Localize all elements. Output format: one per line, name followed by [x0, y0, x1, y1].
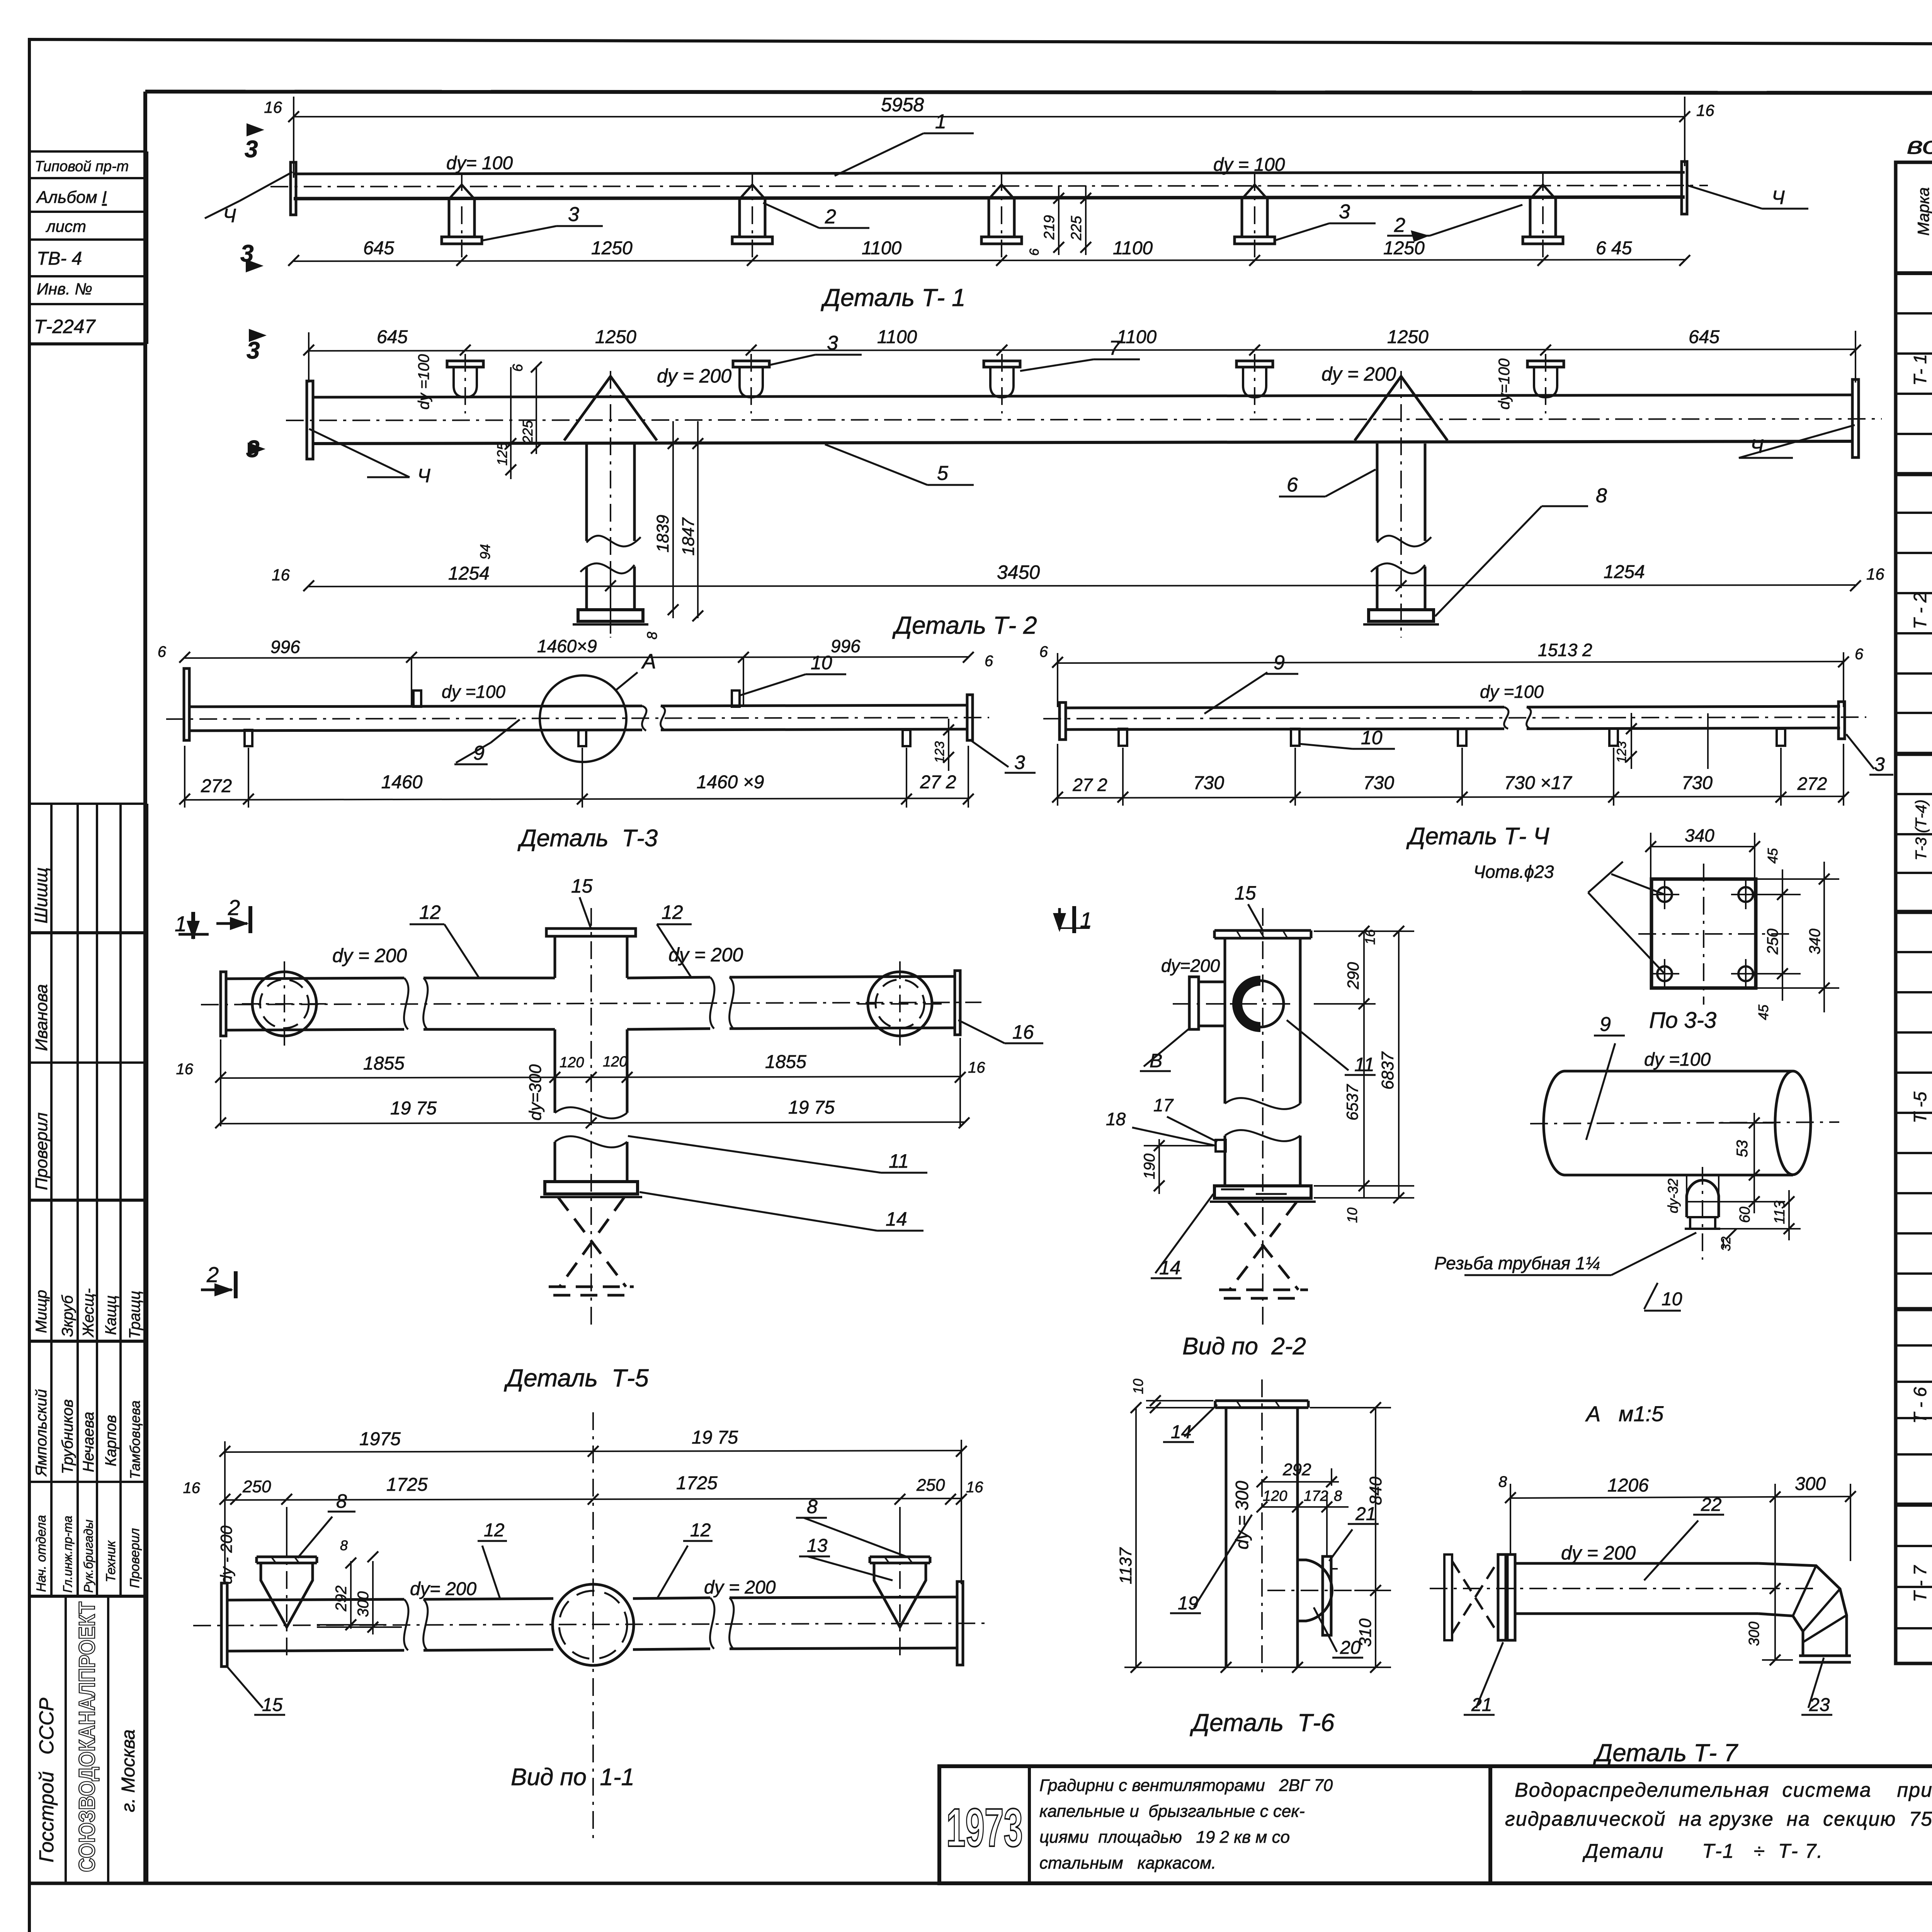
svg-text:272: 272: [1797, 774, 1827, 794]
T-3 dim 123: [943, 719, 954, 771]
svg-text:3: 3: [827, 332, 838, 354]
pipe T-2 dy=200: [286, 379, 1882, 459]
svg-text:14: 14: [886, 1208, 907, 1230]
V22 label 11: [1287, 1020, 1376, 1075]
T-6 label 14: [1163, 1405, 1217, 1442]
T-1 nozzle poz.2 at x=3247: [1235, 173, 1275, 260]
svg-text:1: 1: [1080, 908, 1092, 932]
svg-text:16: 16: [1362, 929, 1378, 945]
flange dim 340 top: [1645, 833, 1760, 900]
svg-text:1460: 1460: [381, 772, 423, 793]
svg-text:190: 190: [1141, 1153, 1158, 1179]
svg-text:Т - 2: Т - 2: [1910, 593, 1930, 629]
pipe V11: [193, 1582, 989, 1667]
svg-text:8: 8: [1498, 1473, 1507, 1490]
svg-text:А: А: [641, 650, 656, 673]
T-7 elbow 90deg poz.23: [1758, 1563, 1851, 1662]
svg-text:120: 120: [603, 1054, 627, 1070]
svg-text:ТВ- 4: ТВ- 4: [37, 248, 82, 269]
inner drawing frame bottom: [29, 1882, 1932, 1885]
svg-text:dy = 200: dy = 200: [704, 1577, 776, 1598]
svg-text:1973: 1973: [946, 1797, 1023, 1858]
svg-text:dy - 200: dy - 200: [217, 1526, 235, 1584]
svg-text:16: 16: [272, 566, 290, 584]
T-4 stubs poz.10: [1119, 729, 1785, 746]
T-5 section mark 1 right: [1053, 906, 1090, 933]
svg-text:292: 292: [333, 1585, 350, 1612]
T-2 small dims 125/225: [505, 362, 542, 479]
T-1 leader 4 right: [1688, 185, 1808, 209]
svg-text:6: 6: [1039, 643, 1048, 660]
T-7 inlet flange poz.21: [1498, 1554, 1515, 1640]
svg-text:730: 730: [1682, 773, 1713, 793]
svg-text:Деталь Т- 7: Деталь Т- 7: [1593, 1739, 1738, 1767]
T-6 dim 1137: [1124, 1402, 1229, 1673]
svg-text:Деталь Т- 2: Деталь Т- 2: [892, 611, 1037, 639]
svg-text:10: 10: [1662, 1289, 1682, 1310]
T-5 labels 12 12: [410, 924, 692, 978]
V11 center circle pipe dy300: [553, 1412, 634, 1839]
svg-text:2: 2: [1394, 214, 1405, 236]
svg-text:Ямпольский: Ямпольский: [33, 1389, 50, 1477]
svg-text:dy = 200: dy = 200: [1561, 1542, 1636, 1564]
svg-text:10: 10: [1130, 1379, 1146, 1394]
svg-text:225: 225: [1068, 216, 1085, 241]
svg-text:dy=100: dy=100: [1496, 359, 1513, 410]
pipe T-7 dy=200: [1430, 1563, 1816, 1614]
svg-text:Ч: Ч: [1750, 435, 1764, 457]
T-5 label 11: [628, 1136, 927, 1173]
svg-text:7: 7: [1109, 337, 1121, 359]
V11 dim chain 16/250/1725: [219, 1494, 967, 1557]
T-2 leader 4 right: [1739, 425, 1855, 458]
svg-text:8: 8: [644, 632, 660, 639]
svg-text:21: 21: [1355, 1504, 1376, 1524]
svg-text:Шишщ: Шишщ: [31, 867, 51, 923]
svg-text:3: 3: [1339, 201, 1350, 223]
T-2 leader 6: [1279, 469, 1376, 497]
svg-text:15: 15: [262, 1695, 283, 1715]
T-3 leader 9: [454, 719, 520, 764]
svg-text:645: 645: [377, 327, 408, 347]
svg-text:120: 120: [1263, 1488, 1287, 1504]
svg-text:12: 12: [690, 1520, 711, 1541]
svg-text:3: 3: [1874, 753, 1885, 775]
P33 big pipe cylinder: [1530, 1071, 1839, 1175]
cone nozzle at 742: [257, 1538, 317, 1658]
svg-text:10: 10: [1344, 1207, 1360, 1223]
V22 labels 17 18 + fitting: [1132, 1117, 1226, 1151]
T-5 vertical pipe dy=300: [540, 908, 642, 1329]
svg-text:стальным каркасом.: стальным каркасом.: [1039, 1854, 1216, 1872]
T-2 top dim chain: [303, 331, 1861, 383]
V22 right dims: [1314, 926, 1414, 1203]
svg-text:6: 6: [510, 364, 526, 372]
T-2 drop dim 1839/1847: [668, 421, 703, 621]
svg-text:8: 8: [1334, 1488, 1342, 1504]
svg-text:лист: лист: [45, 217, 86, 235]
svg-text:Кащц: Кащц: [102, 1295, 119, 1335]
svg-text:Вид по 1-1: Вид по 1-1: [511, 1764, 634, 1791]
svg-text:645: 645: [363, 238, 394, 259]
T-1 nozzle poz.2 at x=1195: [442, 173, 482, 260]
svg-text:Тамбовцева: Тамбовцева: [127, 1400, 143, 1479]
svg-text:1725: 1725: [386, 1475, 428, 1495]
pipe T-1 dy=100: [270, 162, 1708, 215]
svg-text:8: 8: [336, 1490, 347, 1512]
V11 label 15: [226, 1665, 285, 1715]
svg-text:1839: 1839: [653, 515, 672, 553]
V22 label 14: [1151, 1194, 1213, 1278]
T-2 top nozzle poz.3/7 at x=1944: [733, 354, 769, 413]
T-5 dim 1855/120/120: [215, 1038, 966, 1126]
T-6 column pipe dy=300: [1226, 1379, 1298, 1677]
svg-text:27 2: 27 2: [1072, 775, 1107, 795]
T-1 leader 1: [835, 133, 974, 176]
T-6 top flange poz.14: [1215, 1401, 1308, 1408]
svg-text:СОЮЗВОДОКАНАЛПРОЕКТ: СОЮЗВОДОКАНАЛПРОЕКТ: [75, 1602, 100, 1872]
svg-text:Нечаева: Нечаева: [80, 1412, 97, 1472]
T-6 side nozzle poz.20 half circle: [1267, 1560, 1352, 1621]
svg-text:730: 730: [1193, 773, 1224, 793]
svg-text:11: 11: [889, 1150, 909, 1172]
svg-text:Т - 6: Т - 6: [1910, 1387, 1930, 1423]
svg-text:2: 2: [825, 206, 836, 228]
svg-text:Проверил: Проверил: [32, 1112, 51, 1190]
V11 labels 12: [478, 1541, 713, 1600]
svg-text:1100: 1100: [1113, 238, 1153, 259]
svg-text:250: 250: [1764, 929, 1781, 955]
svg-text:19 75: 19 75: [390, 1098, 437, 1119]
T-2 section mark 3 upper: [268, 323, 272, 360]
svg-text:16: 16: [264, 98, 282, 116]
T-2 drop pipe poz.6 at x=3626: [1355, 371, 1447, 638]
svg-text:16: 16: [1866, 565, 1884, 583]
svg-text:22: 22: [1701, 1495, 1721, 1515]
svg-text:dy = 200: dy = 200: [657, 365, 731, 387]
svg-text:dy = 200: dy = 200: [668, 944, 743, 966]
svg-text:14: 14: [1171, 1422, 1191, 1442]
svg-text:dy-32: dy-32: [1665, 1179, 1681, 1213]
svg-text:dy =100: dy =100: [442, 682, 505, 702]
svg-text:1: 1: [175, 912, 187, 936]
svg-text:гидравлической на грузке на: гидравлической на грузке на секцию 750 м…: [1505, 1808, 1932, 1830]
T-3 leader 3 right: [972, 741, 1036, 773]
T-7 dim 300 vert: [1762, 1583, 1793, 1665]
T-2 leader 5: [825, 444, 974, 485]
svg-text:45: 45: [1765, 848, 1781, 864]
svg-text:1: 1: [935, 111, 946, 133]
svg-text:219: 219: [1041, 215, 1058, 240]
flange plate detail 340x340: [1638, 864, 1795, 1005]
svg-text:19 75: 19 75: [788, 1097, 835, 1118]
svg-text:113: 113: [1772, 1201, 1788, 1224]
svg-text:1855: 1855: [765, 1052, 806, 1072]
svg-text:123: 123: [1614, 741, 1629, 763]
table grid: [1896, 162, 1932, 1663]
svg-text:dy=300: dy=300: [526, 1064, 545, 1121]
svg-text:13: 13: [807, 1536, 828, 1556]
svg-text:Детали Т-1 ÷ Т- 7.: Детали Т-1 ÷ Т- 7.: [1582, 1840, 1823, 1862]
T-4 leader 10: [1299, 744, 1395, 749]
svg-text:12: 12: [419, 901, 441, 923]
svg-text:Чотв.ɸ23: Чотв.ɸ23: [1473, 862, 1554, 882]
T-3 stubs poz.10: [245, 690, 910, 746]
V11 label 13: [799, 1556, 893, 1580]
svg-text:1513 2: 1513 2: [1538, 640, 1592, 660]
svg-text:340: 340: [1806, 929, 1823, 954]
svg-text:12: 12: [662, 901, 683, 923]
T-1 section mark 3 lower: [266, 248, 270, 286]
svg-text:16: 16: [183, 1480, 201, 1497]
svg-text:15: 15: [571, 875, 593, 897]
svg-text:730 ×17: 730 ×17: [1504, 773, 1573, 793]
svg-text:Типовой пр-т: Типовой пр-т: [35, 158, 129, 175]
svg-text:996: 996: [270, 637, 300, 657]
svg-text:dy = 200: dy = 200: [332, 945, 407, 966]
V11 labels 8: [298, 1512, 910, 1558]
T-2 leader 3: [769, 355, 862, 365]
T-6 dim 10 top: [1146, 1395, 1213, 1413]
V22 bottom flange poz.14: [1210, 1186, 1316, 1202]
svg-text:290: 290: [1344, 962, 1362, 990]
T-2 leader 7: [1020, 359, 1140, 371]
svg-text:dy= 100: dy= 100: [446, 153, 513, 173]
T-5 section mark 2 top: [216, 906, 250, 933]
inner drawing frame left: [143, 92, 147, 1883]
svg-text:В: В: [1150, 1050, 1162, 1071]
svg-text:32: 32: [1719, 1236, 1733, 1251]
svg-text:водораспределительной систем: водораспределительной системы.: [1907, 133, 1932, 159]
V22 label 15 top: [1248, 904, 1263, 930]
svg-text:Марка: Марка: [1914, 187, 1932, 236]
T-2 top nozzle poz.3/7 at x=1204: [447, 354, 483, 413]
svg-text:Ч: Ч: [223, 205, 236, 226]
svg-text:1847: 1847: [679, 517, 698, 556]
svg-text:3: 3: [568, 203, 579, 226]
svg-text:Градирни с вентиляторами 2ВГ: Градирни с вентиляторами 2ВГ 70: [1039, 1776, 1333, 1795]
svg-text:996: 996: [831, 636, 861, 656]
T-3 bottom dim chain: [179, 746, 974, 808]
svg-text:1460 ×9: 1460 ×9: [697, 772, 764, 793]
svg-text:300: 300: [355, 1591, 372, 1617]
pipe T-3 dy=100: [166, 668, 989, 740]
svg-text:Ч: Ч: [1772, 187, 1785, 208]
svg-text:Т -5: Т -5: [1910, 1092, 1930, 1123]
T-7 dim 1206/300: [1505, 1484, 1856, 1619]
svg-text:Иванова: Иванова: [32, 984, 51, 1051]
svg-text:125: 125: [494, 442, 510, 466]
svg-text:Жесщ-: Жесщ-: [80, 1288, 97, 1338]
T-2 top nozzle poz.3/7 at x=3247: [1236, 354, 1273, 413]
svg-text:8: 8: [1596, 485, 1607, 507]
T-5 section mark 2 bottom: [201, 1271, 236, 1298]
svg-text:3: 3: [247, 337, 260, 364]
svg-text:3: 3: [1014, 752, 1025, 773]
V22 vertical pipe: [1225, 908, 1300, 1329]
svg-text:dy =100: dy =100: [415, 354, 432, 410]
svg-text:10: 10: [811, 652, 832, 673]
svg-text:6537: 6537: [1343, 1084, 1361, 1121]
svg-text:1254: 1254: [1604, 562, 1645, 582]
T-2 drop pipe poz.6 at x=1580: [564, 371, 657, 638]
T-6 label 20: [1314, 1607, 1363, 1658]
T-2 leader 8: [1435, 506, 1588, 616]
svg-text:6: 6: [1287, 474, 1298, 496]
T-1 bottom dim chain: [288, 255, 1690, 266]
svg-text:Деталь Т- Ч: Деталь Т- Ч: [1406, 823, 1549, 850]
svg-text:840: 840: [1366, 1476, 1385, 1505]
svg-text:172: 172: [1304, 1488, 1328, 1504]
svg-text:2: 2: [228, 895, 240, 920]
svg-text:8: 8: [340, 1537, 348, 1553]
svg-text:1855: 1855: [363, 1053, 405, 1074]
T-7 label 23: [1801, 1658, 1832, 1715]
T-1 leader 3: [483, 226, 603, 240]
T-1 nozzle poz.2 at x=2592: [981, 173, 1022, 260]
T-1 leader 3b: [1275, 223, 1376, 240]
pipe T-4 dy=100: [1043, 702, 1866, 740]
svg-text:Альбом I: Альбом I: [36, 188, 107, 207]
svg-text:Деталь Т- 1: Деталь Т- 1: [821, 284, 966, 311]
svg-text:Проверил: Проверил: [128, 1528, 142, 1588]
inner drawing frame top: [145, 92, 1932, 94]
P33 bell nozzle: [1685, 1167, 1720, 1260]
T-5 label 14: [639, 1192, 923, 1231]
svg-text:dy= 200: dy= 200: [410, 1579, 476, 1599]
svg-text:dy =100: dy =100: [1644, 1049, 1711, 1070]
svg-text:1206: 1206: [1607, 1475, 1649, 1496]
svg-text:10: 10: [1361, 727, 1383, 748]
svg-text:Трубников: Трубников: [59, 1399, 76, 1474]
T-4 dim 123: [1626, 713, 1708, 769]
svg-text:9: 9: [1600, 1013, 1611, 1036]
V22 dashed cross: [1219, 1202, 1308, 1298]
T-5 section mark 1 left: [179, 912, 209, 940]
svg-text:капельные и брызгальные с сек: капельные и брызгальные с сек-: [1039, 1802, 1305, 1821]
signature zone grid: [145, 804, 148, 1883]
svg-text:2: 2: [206, 1262, 219, 1287]
T-5 end cap circles poz.16: [242, 961, 942, 1046]
pipe T-5 horizontal dy=200: [201, 971, 981, 1036]
svg-text:dy =100: dy =100: [1480, 682, 1544, 702]
svg-text:6837: 6837: [1378, 1051, 1397, 1090]
svg-text:dy = 200: dy = 200: [1321, 363, 1396, 385]
svg-text:250: 250: [242, 1477, 271, 1496]
svg-text:8: 8: [807, 1496, 818, 1517]
svg-text:Ч: Ч: [417, 465, 430, 486]
T-2 leader 4 left: [309, 429, 410, 477]
T-2 top nozzle poz.3/7 at x=4000: [1527, 354, 1564, 413]
T-2 top nozzle poz.3/7 at x=2593: [984, 354, 1020, 413]
svg-text:250: 250: [916, 1476, 945, 1495]
svg-text:циями площадью 19 2 кв м со: циями площадью 19 2 кв м со: [1039, 1828, 1290, 1847]
svg-text:310: 310: [1356, 1618, 1375, 1647]
svg-text:6: 6: [158, 643, 167, 660]
T-1 section mark 3 upper: [269, 112, 273, 151]
svg-text:Мищр: Мищр: [33, 1290, 50, 1333]
T-7 label 22: [1644, 1515, 1724, 1580]
svg-text:9: 9: [473, 742, 485, 764]
T-6 dims 840/310 right: [1310, 1402, 1391, 1673]
svg-text:23: 23: [1809, 1695, 1830, 1715]
cone nozzle at 2329: [870, 1538, 930, 1658]
V11 dims 292 300: [317, 1551, 402, 1634]
svg-text:730: 730: [1363, 773, 1394, 793]
svg-text:16: 16: [968, 1059, 985, 1076]
svg-text:1975: 1975: [359, 1429, 401, 1449]
svg-text:15: 15: [1235, 882, 1256, 904]
flange dims right: [1756, 862, 1839, 1012]
svg-text:1100: 1100: [1117, 327, 1157, 347]
T-6 label 21: [1329, 1524, 1379, 1561]
svg-text:Гл.инж.пр-та: Гл.инж.пр-та: [61, 1516, 75, 1593]
svg-text:1137: 1137: [1116, 1547, 1135, 1584]
leader 4otv.f23: [1588, 862, 1665, 974]
svg-text:21: 21: [1471, 1695, 1492, 1715]
svg-text:16: 16: [1696, 101, 1714, 119]
svg-text:5958: 5958: [881, 94, 924, 116]
svg-text:300: 300: [1746, 1622, 1762, 1646]
svg-text:3: 3: [245, 136, 258, 163]
svg-text:340: 340: [1685, 825, 1714, 845]
svg-text:dy = 300: dy = 300: [1232, 1481, 1252, 1549]
V22 top flange: [1214, 930, 1311, 938]
title block grid: [939, 1766, 1932, 1883]
T-1 leader 2: [763, 203, 869, 228]
table body grid: [1896, 273, 1932, 1663]
P33 dims: [1719, 1113, 1801, 1248]
svg-text:94: 94: [477, 544, 493, 560]
svg-text:272: 272: [201, 776, 232, 796]
svg-text:3: 3: [240, 240, 253, 267]
T-1 small dims 219/225: [1053, 185, 1091, 255]
svg-text:Деталь Т-3: Деталь Т-3: [517, 825, 658, 852]
T-6 nozzle flange poz.21: [1323, 1556, 1338, 1635]
svg-text:16: 16: [1012, 1021, 1034, 1043]
svg-text:3: 3: [246, 436, 259, 463]
T-6 label 19: [1170, 1515, 1252, 1613]
T-1 nozzle poz.2 at x=3993: [1523, 173, 1563, 260]
svg-text:1100: 1100: [877, 327, 917, 347]
V22 dim 190: [1144, 1139, 1213, 1194]
svg-text:3450: 3450: [997, 561, 1040, 583]
svg-text:9: 9: [1274, 651, 1285, 674]
T-4 leader 3: [1846, 734, 1893, 775]
svg-text:60: 60: [1737, 1207, 1753, 1223]
svg-text:Т-2247: Т-2247: [34, 316, 96, 337]
svg-text:6: 6: [985, 653, 993, 670]
T-4 leader 9: [1204, 672, 1298, 714]
T-5 dim 1975: [215, 1117, 969, 1128]
svg-text:14: 14: [1159, 1257, 1181, 1279]
left stamp column grid: [29, 151, 147, 1883]
V11 dim 1975 1975: [219, 1440, 967, 1584]
T-7 label 21: [1464, 1642, 1503, 1715]
svg-text:1100: 1100: [862, 238, 902, 259]
svg-text:Деталь Т-5: Деталь Т-5: [504, 1364, 649, 1392]
svg-text:1460×9: 1460×9: [537, 636, 597, 656]
svg-text:6 45: 6 45: [1596, 238, 1632, 259]
P33 label 9: [1586, 1036, 1625, 1140]
svg-text:А м1:5: А м1:5: [1585, 1401, 1664, 1426]
svg-text:Техник: Техник: [104, 1540, 118, 1582]
svg-text:225: 225: [520, 420, 536, 444]
T-2 section mark 3 lower: [267, 425, 271, 462]
svg-text:19: 19: [1178, 1593, 1198, 1614]
T-6 dims 292/120/172/8: [1257, 1468, 1349, 1557]
svg-text:120: 120: [560, 1054, 584, 1071]
